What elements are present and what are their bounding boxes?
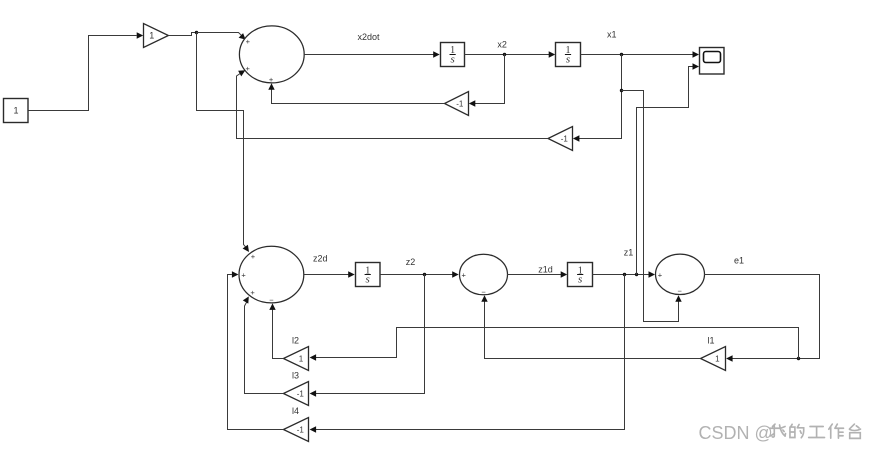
wire x1 Integrator2 to Scope input 1 [581, 54, 693, 56]
wire z1 Integrator4 to Sum4 [593, 274, 649, 276]
node A junction dot [195, 31, 198, 34]
svg-text:l4: l4 [292, 406, 299, 416]
wire z1 up to Scope input 2 [637, 67, 693, 275]
node z1 junction dot (to l4) [623, 273, 626, 276]
svg-text:x2dot: x2dot [358, 32, 381, 42]
wire Gain1 output to node A [169, 33, 197, 36]
wire gain l1 output to Sum3 bottom input [485, 300, 701, 359]
wire x2 feedback down to Gain -1 (x2) [475, 55, 505, 104]
watermark chinese glyph wo [770, 424, 861, 438]
integrator U2 1/s [556, 43, 581, 67]
gain l3 value -1 [283, 382, 308, 406]
svg-text:1: 1 [13, 106, 18, 116]
svg-text:1: 1 [149, 31, 154, 41]
wire Gain -1 (x2) output to Sum1 bottom input [272, 85, 445, 104]
svg-text:-1: -1 [297, 426, 305, 435]
wire node A down to Sum2 input 1 [197, 33, 247, 249]
watermark CSDN [699, 423, 773, 443]
svg-text:+: + [269, 75, 274, 84]
wire gain l2 output to Sum2 bottom input [273, 306, 284, 359]
svg-text:z2: z2 [406, 257, 416, 267]
wire node A to Sum1 input 1 [197, 33, 244, 38]
summing junction Sum1 [239, 26, 304, 84]
svg-text:+: + [251, 252, 256, 261]
gain l2 value 1 [283, 347, 308, 371]
wire gain l4 output to Sum2 left input [228, 275, 284, 430]
svg-text:CSDN @: CSDN @ [699, 423, 773, 443]
integrator U4 1/s [568, 263, 593, 287]
svg-text:x2: x2 [497, 39, 507, 49]
svg-text:−: − [269, 295, 274, 304]
summing junction Sum2 [239, 246, 304, 304]
svg-text:1: 1 [299, 355, 304, 364]
svg-text:l1: l1 [708, 335, 715, 345]
node z1 junction dot (to scope) [635, 273, 638, 276]
wire Constant to Gain1 [29, 36, 136, 111]
node z2 junction dot [423, 273, 426, 276]
watermark chinese glyph gong [809, 427, 825, 438]
svg-text:s: s [366, 274, 370, 286]
svg-text:+: + [462, 271, 467, 280]
svg-text:+: + [250, 288, 255, 297]
watermark chinese glyph zuo [829, 424, 844, 438]
wire x1 feedback down to Gain -1 (x1) [578, 55, 622, 139]
wire z2 Integrator3 to Sum3 [380, 274, 452, 276]
svg-text:z2d: z2d [313, 254, 328, 264]
node x1 junction dot [620, 53, 623, 56]
gain G3 value -1 (x1 feedback) [548, 127, 573, 151]
svg-text:+: + [246, 64, 251, 73]
integrator U1 1/s [441, 43, 465, 67]
svg-text:-1: -1 [561, 135, 569, 144]
constant block Constant value 1 [4, 99, 29, 123]
svg-text:z1d: z1d [538, 264, 553, 274]
node e1 junction dot (l2 tap) [797, 357, 800, 360]
svg-text:z1: z1 [624, 248, 634, 258]
wire node B to Sum4 bottom input (x1 to e1 sum) [622, 91, 679, 322]
gain G1 value 1 [144, 24, 169, 48]
svg-text:l2: l2 [292, 335, 299, 345]
wire Sum3 output z1d to Integrator4 [508, 274, 561, 276]
gain G2 value -1 (x2 feedback) [445, 92, 469, 116]
scope block Scope [700, 48, 725, 75]
summing junction Sum3 [460, 254, 508, 296]
wire e1 tap to gain l2 input [316, 328, 799, 359]
node B junction dot on x1 feedback [620, 89, 623, 92]
gain l1 value 1 [701, 347, 726, 371]
svg-text:−: − [678, 287, 683, 296]
svg-text:e1: e1 [734, 256, 744, 266]
svg-text:+: + [241, 271, 246, 280]
wire Sum1 output x2dot to Integrator1 [304, 54, 433, 56]
wire Sum4 output e1 to gain l1 input [705, 275, 820, 359]
svg-text:−: − [481, 287, 486, 296]
watermark chinese glyph de [790, 424, 804, 437]
wire z2 down to gain l3 input [316, 275, 425, 394]
svg-text:s: s [578, 274, 582, 286]
wire Sum2 output z2d to Integrator3 [304, 274, 348, 276]
integrator U3 1/s [356, 263, 381, 287]
svg-text:x1: x1 [607, 30, 617, 40]
svg-text:+: + [658, 271, 663, 280]
watermark chinese glyph tai [850, 424, 861, 438]
summing junction Sum4 (e1) [656, 254, 705, 296]
gain l4 value -1 [283, 418, 308, 442]
svg-text:-1: -1 [456, 100, 464, 109]
wire z1 down to gain l4 input [316, 275, 625, 430]
svg-text:s: s [566, 54, 570, 66]
wire Gain -1 (x1) output to Sum1 left input [237, 72, 548, 139]
svg-text:-1: -1 [297, 390, 305, 399]
node x2 junction dot [503, 53, 506, 56]
wire gain l3 output to Sum2 lower-left input [245, 302, 284, 393]
wire x2 Integrator1 to Integrator2 [465, 54, 549, 56]
svg-text:1: 1 [715, 355, 720, 364]
svg-text:l3: l3 [292, 371, 299, 381]
svg-text:s: s [450, 54, 454, 66]
svg-text:+: + [246, 37, 251, 46]
